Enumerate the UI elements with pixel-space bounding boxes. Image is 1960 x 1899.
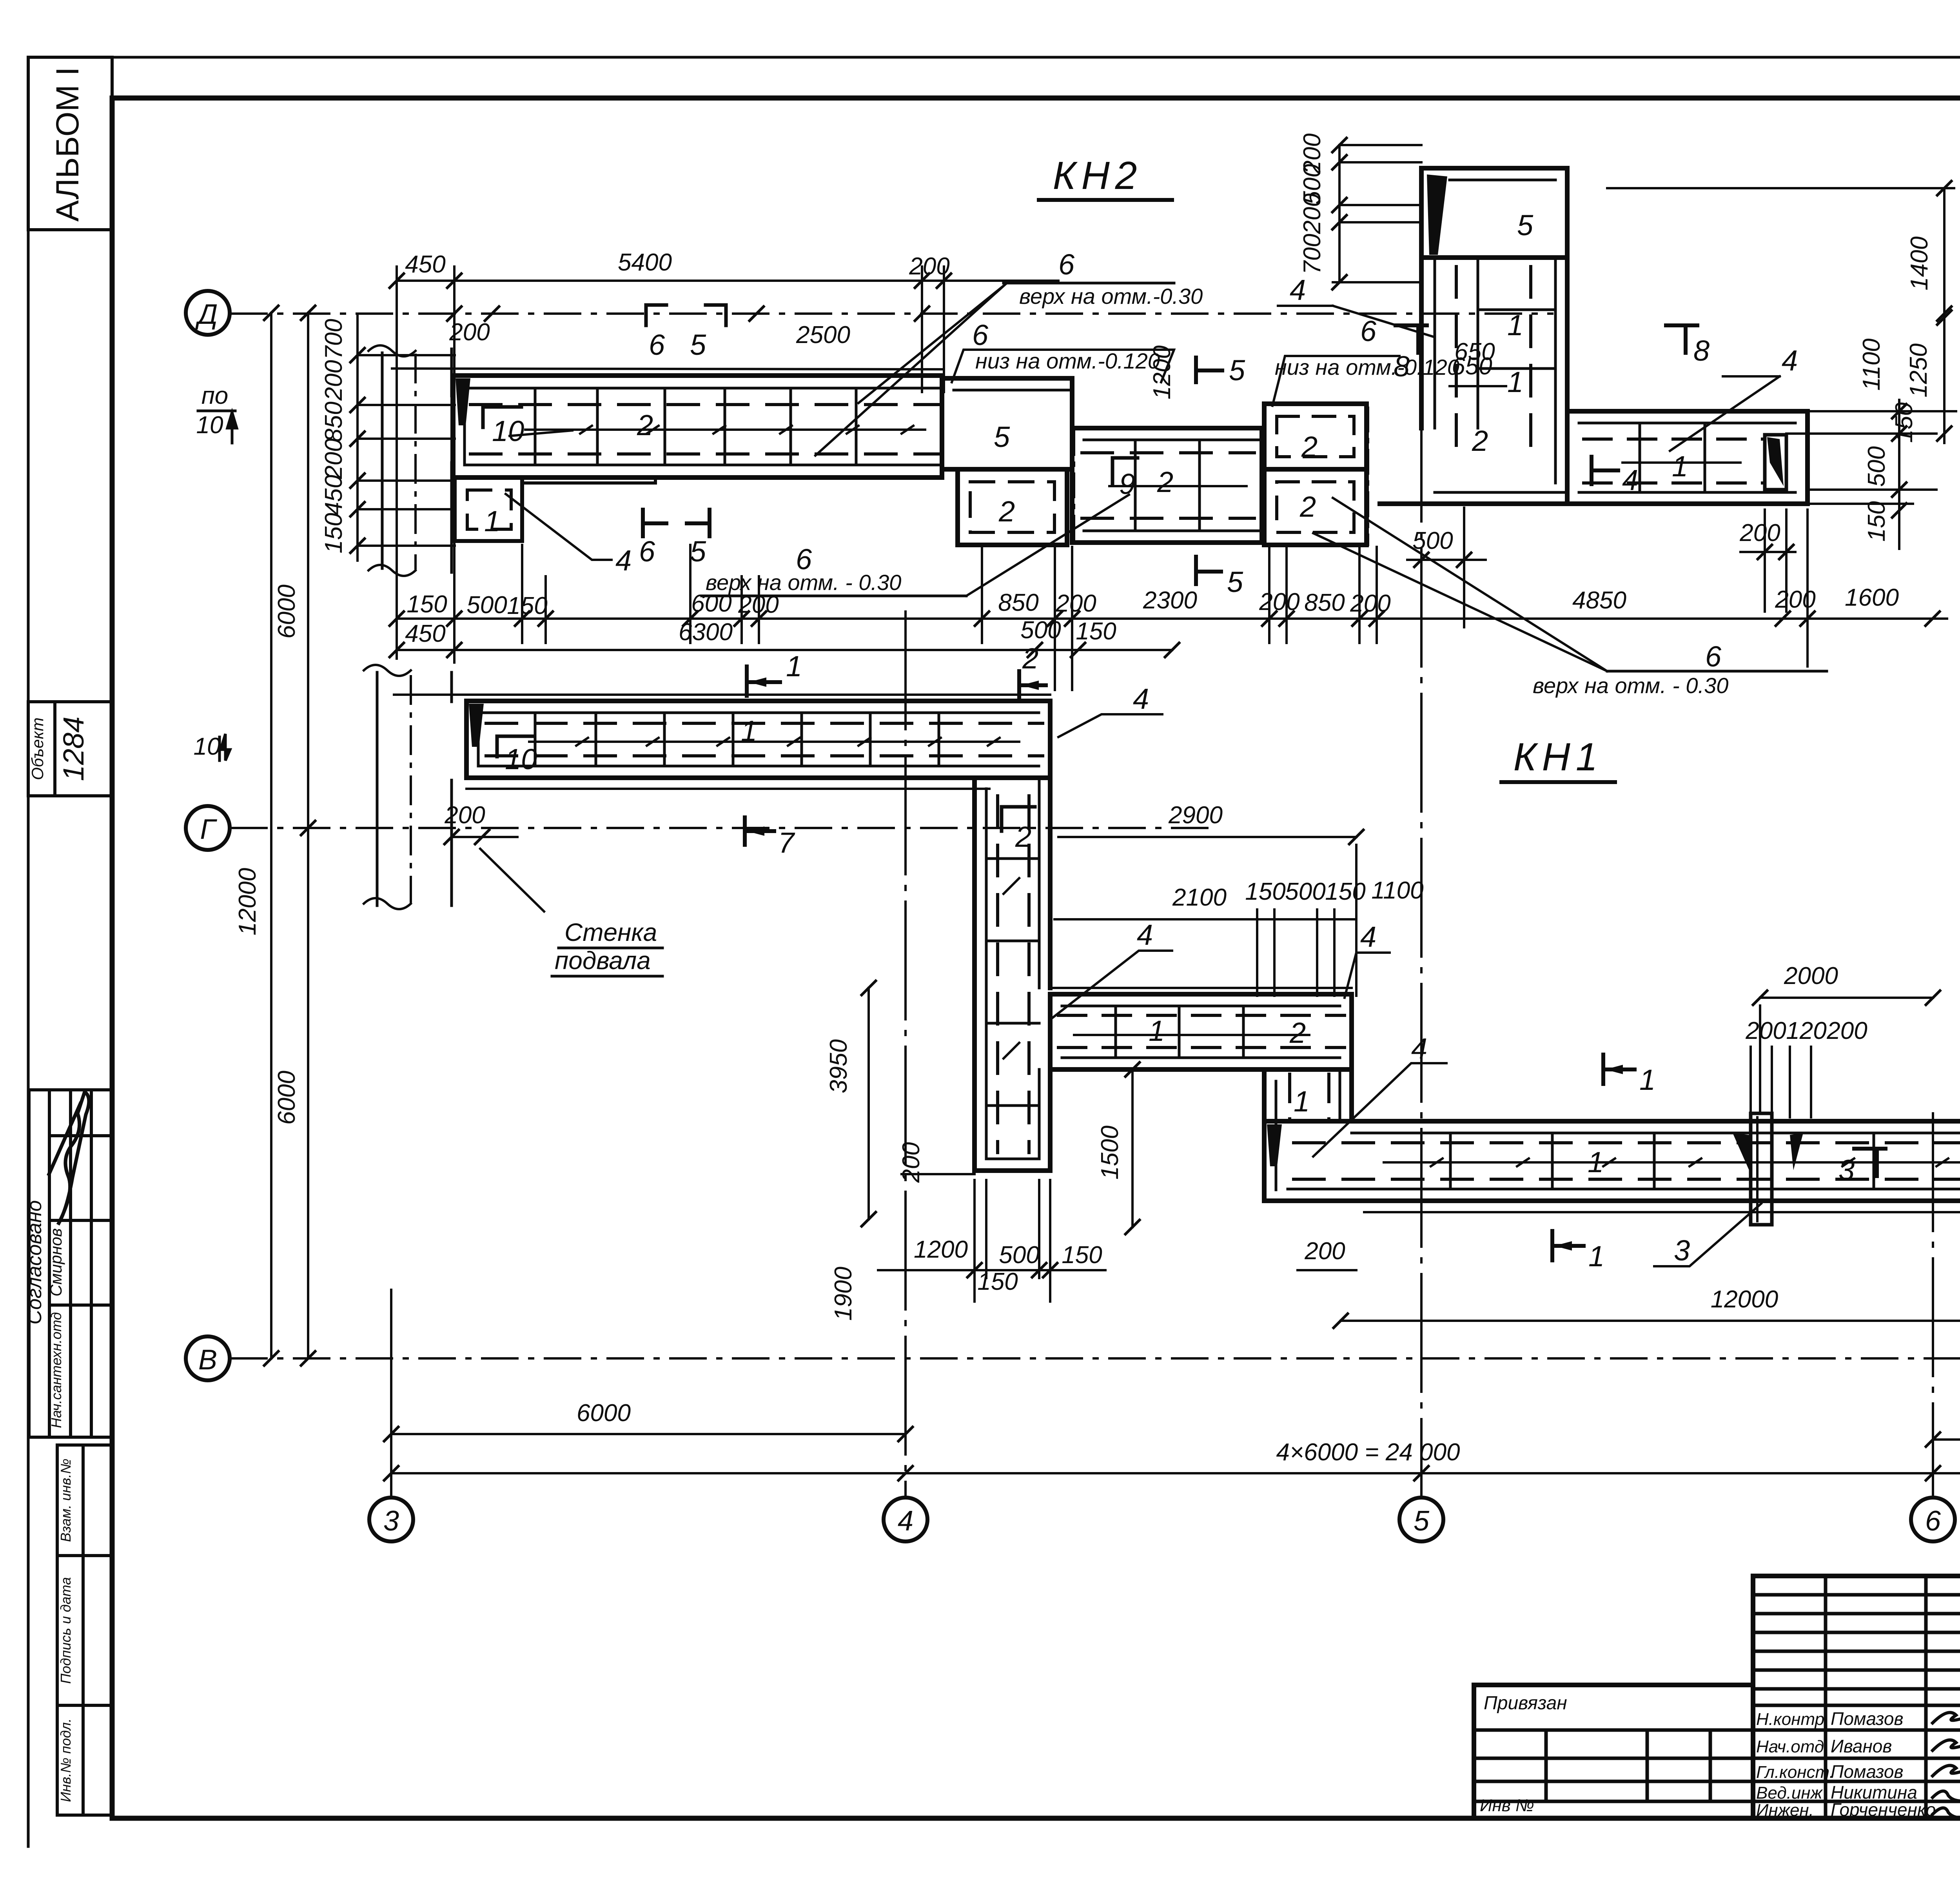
svg-text:12000: 12000 — [234, 868, 261, 935]
svg-text:6000: 6000 — [273, 585, 300, 639]
svg-text:2100: 2100 — [1172, 884, 1227, 911]
foundation shelf line below channel A — [522, 477, 655, 483]
svg-text:6: 6 — [639, 535, 655, 568]
svg-text:Объект: Объект — [28, 717, 47, 780]
svg-text:1200: 1200 — [1149, 345, 1176, 399]
dim row 3 line — [397, 617, 1947, 620]
svg-text:450: 450 — [405, 251, 445, 278]
Объект 1284 box — [28, 702, 112, 796]
svg-text:500: 500 — [1020, 617, 1061, 644]
svg-text:1900: 1900 — [830, 1267, 857, 1321]
grid rows upper — [1753, 1593, 1960, 1597]
svg-text:1: 1 — [1588, 1240, 1604, 1273]
svg-text:Согласовано: Согласовано — [23, 1200, 46, 1324]
svg-text:200: 200 — [444, 802, 485, 829]
svg-text:500: 500 — [1863, 446, 1890, 487]
thin footing line above — [392, 369, 942, 369]
leg top box wedge — [1427, 174, 1447, 255]
channel A segment dividers — [535, 388, 856, 465]
svg-text:4: 4 — [1411, 1032, 1427, 1065]
svg-text:1: 1 — [741, 715, 757, 747]
leader 4 at elbow — [1313, 1063, 1446, 1156]
leader 4 to КН1 top run right — [1058, 714, 1162, 737]
svg-text:1250: 1250 — [1905, 343, 1932, 398]
svg-text:200: 200 — [1826, 1017, 1867, 1044]
svg-text:200: 200 — [1304, 1238, 1345, 1265]
basement wall at КН2 left — [368, 345, 452, 576]
svg-text:4: 4 — [1137, 919, 1153, 951]
svg-text:850: 850 — [1304, 589, 1345, 616]
axis circle В — [186, 1336, 230, 1380]
flags 6 5 below channel A — [643, 510, 666, 536]
svg-text:1: 1 — [1588, 1146, 1604, 1178]
КН1 left vertical leg — [975, 778, 1050, 1171]
axis 5 line — [1420, 259, 1423, 1497]
svg-text:1100: 1100 — [1371, 877, 1423, 904]
КН2 box 2 (below 5) — [958, 469, 1067, 545]
names grid outer — [1753, 1576, 1960, 1818]
КН2 right 2/2 boxes — [1264, 404, 1367, 545]
svg-text:2: 2 — [1157, 466, 1173, 498]
КН1 bottom run — [1264, 1121, 1960, 1212]
svg-text:Помазов: Помазов — [1831, 1708, 1903, 1729]
flag 10 in channel A — [483, 407, 521, 427]
svg-text:6: 6 — [1058, 248, 1075, 281]
svg-text:6: 6 — [1360, 315, 1377, 347]
svg-text:200: 200 — [449, 319, 490, 346]
axis 3 line — [390, 1290, 392, 1497]
svg-text:200: 200 — [1350, 590, 1390, 617]
svg-text:150: 150 — [977, 1268, 1018, 1295]
svg-text:8: 8 — [1693, 334, 1710, 367]
leader 4 at jog right — [1345, 953, 1390, 998]
svg-text:6: 6 — [1705, 640, 1722, 673]
svg-text:Подпись и дата: Подпись и дата — [58, 1577, 74, 1684]
svg-text:1: 1 — [484, 505, 500, 537]
svg-text:150: 150 — [1863, 501, 1890, 541]
svg-text:1400: 1400 — [1906, 236, 1933, 290]
svg-text:2300: 2300 — [1143, 587, 1197, 614]
svg-text:500: 500 — [466, 592, 507, 619]
svg-text:Смирнов: Смирнов — [47, 1228, 65, 1296]
dim row 2 (on axis Д) ticks — [447, 307, 929, 321]
svg-text:10: 10 — [194, 733, 221, 760]
svg-text:10: 10 — [505, 743, 537, 775]
svg-text:200: 200 — [1745, 1017, 1786, 1044]
leader 3 to joint 1 — [1654, 1204, 1761, 1266]
svg-text:6000: 6000 — [273, 1071, 300, 1125]
svg-text:5: 5 — [1229, 354, 1245, 387]
svg-text:Взам. инв.№: Взам. инв.№ — [58, 1459, 74, 1542]
КН2 vertical leg walls — [1421, 258, 1567, 483]
svg-text:5: 5 — [690, 329, 706, 361]
svg-text:1: 1 — [1672, 450, 1688, 483]
svg-text:1284: 1284 — [57, 717, 90, 781]
Согласовано block — [29, 1090, 112, 1437]
axis circle Д — [186, 291, 230, 335]
svg-text:4×6000 = 24 000: 4×6000 = 24 000 — [1276, 1439, 1460, 1466]
svg-text:4: 4 — [1290, 274, 1306, 306]
svg-text:5400: 5400 — [618, 249, 672, 276]
extension lines row 1 — [396, 267, 398, 659]
svg-text:АЛЬБОМ I: АЛЬБОМ I — [50, 67, 85, 222]
svg-text:4: 4 — [898, 1505, 913, 1537]
bottom run dividers — [1450, 1133, 1960, 1189]
svg-text:850: 850 — [998, 589, 1038, 616]
svg-text:150: 150 — [1325, 878, 1365, 905]
svg-text:150: 150 — [320, 513, 347, 553]
axis circle 6 — [1911, 1498, 1955, 1541]
svg-text:Д: Д — [195, 299, 218, 330]
svg-text:5: 5 — [690, 535, 706, 568]
dash-dot joint lines at 2/2 boxes — [1367, 408, 1369, 545]
bottom run left end wedge — [1267, 1124, 1282, 1166]
axis circle 4 — [884, 1498, 927, 1541]
svg-text:низ на отм.-0.120: низ на отм.-0.120 — [975, 349, 1160, 373]
svg-text:650: 650 — [1454, 338, 1495, 365]
svg-text:200: 200 — [1259, 588, 1299, 615]
svg-text:КН2: КН2 — [1053, 154, 1143, 198]
svg-text:120: 120 — [1786, 1017, 1826, 1044]
svg-text:700: 700 — [1299, 234, 1326, 274]
section 7 flag on Г axis — [745, 817, 774, 845]
svg-text:4850: 4850 — [1572, 587, 1626, 614]
axis circle 5 — [1399, 1498, 1443, 1541]
flag 3 left — [1854, 1149, 1886, 1176]
svg-text:7: 7 — [778, 826, 795, 859]
КН1 top run left wedge — [469, 704, 484, 747]
svg-text:2900: 2900 — [1168, 802, 1223, 829]
svg-text:Привязан: Привязан — [1484, 1693, 1567, 1714]
svg-text:2: 2 — [1301, 430, 1318, 463]
svg-text:по: по — [201, 382, 229, 409]
svg-text:2: 2 — [1022, 642, 1038, 675]
dim row 4 line 6300 — [397, 649, 1172, 651]
svg-text:150: 150 — [407, 591, 447, 618]
svg-text:6: 6 — [1925, 1505, 1941, 1537]
svg-text:3: 3 — [1674, 1234, 1690, 1267]
svg-text:Н.контр.: Н.контр. — [1756, 1710, 1829, 1729]
svg-text:500: 500 — [1285, 878, 1325, 905]
axis Д line — [231, 312, 1552, 315]
svg-text:1: 1 — [786, 650, 802, 683]
svg-text:500: 500 — [999, 1242, 1039, 1269]
svg-text:200: 200 — [1055, 590, 1096, 617]
svg-text:1: 1 — [1639, 1064, 1655, 1096]
svg-text:верх на отм. - 0.30: верх на отм. - 0.30 — [706, 570, 901, 595]
svg-text:200: 200 — [909, 253, 949, 280]
svg-text:Стенка: Стенка — [564, 918, 657, 946]
leader 4 to leg top wedge — [1333, 306, 1435, 337]
svg-text:2: 2 — [1015, 821, 1031, 853]
svg-text:10: 10 — [196, 412, 223, 439]
svg-text:5: 5 — [1414, 1505, 1430, 1537]
svg-text:Горченченко: Горченченко — [1831, 1799, 1936, 1820]
svg-text:4: 4 — [615, 544, 632, 577]
extension lines right of run — [1786, 411, 1956, 504]
svg-text:4: 4 — [1782, 344, 1798, 377]
svg-text:2: 2 — [637, 409, 653, 441]
flag 9 in middle channel — [1112, 458, 1138, 484]
channel A dashed lines — [470, 405, 939, 454]
svg-text:450: 450 — [320, 475, 347, 515]
КН2 right horizontal run — [1380, 411, 1808, 504]
signature scribble — [49, 1092, 89, 1223]
svg-text:200: 200 — [1739, 519, 1780, 546]
svg-text:2: 2 — [1472, 425, 1488, 457]
КН2 vertical leg top box 5 — [1421, 168, 1567, 258]
КН1 top run dashed lines — [486, 723, 1043, 756]
svg-text:3: 3 — [383, 1505, 399, 1537]
svg-text:низ на отм.-0.120: низ на отм.-0.120 — [1275, 355, 1459, 379]
КН1 jog channel — [1050, 988, 1352, 1069]
svg-text:Инв №: Инв № — [1480, 1796, 1534, 1815]
svg-text:4: 4 — [1360, 920, 1376, 953]
КН2 box 5 (mid) — [942, 378, 1072, 469]
svg-text:200: 200 — [320, 438, 347, 479]
svg-text:150: 150 — [1245, 878, 1285, 905]
axis В line — [231, 1357, 1960, 1360]
leader Стенка подвала — [480, 849, 544, 911]
row 3 ticks — [683, 612, 1940, 626]
svg-text:200: 200 — [898, 1142, 925, 1183]
svg-text:150: 150 — [1062, 1242, 1102, 1269]
basement wall at КН1 left — [364, 665, 452, 909]
svg-text:850: 850 — [320, 401, 347, 442]
svg-text:КН1: КН1 — [1514, 735, 1603, 779]
svg-text:5: 5 — [1227, 566, 1243, 598]
Подпись и дата box — [57, 1556, 112, 1705]
КН2 channel run A outer walls — [392, 369, 942, 477]
row 3 extension lines — [690, 510, 1808, 690]
section 1 below bottom run — [1552, 1231, 1584, 1260]
КН1 elbow down to bottom run — [1264, 1069, 1352, 1201]
svg-text:200: 200 — [1775, 586, 1815, 613]
flag 6 on row2 — [646, 305, 666, 325]
expansion joint 1 — [1751, 1113, 1772, 1225]
leader 4 to box 1 — [506, 494, 612, 560]
svg-text:4: 4 — [1622, 464, 1638, 496]
section flag 8 left — [1396, 325, 1427, 353]
КН1 top run dividers — [535, 713, 939, 766]
dim row 1 line — [397, 280, 1058, 282]
svg-text:2000: 2000 — [1784, 962, 1838, 989]
svg-text:3950: 3950 — [825, 1039, 852, 1093]
Инв № подл box — [57, 1705, 112, 1815]
svg-text:450: 450 — [405, 620, 445, 647]
svg-text:200: 200 — [1299, 193, 1326, 234]
axis Г line — [231, 827, 1207, 829]
svg-text:Г: Г — [200, 814, 217, 845]
bottom run dashed lines — [1294, 1143, 1960, 1179]
svg-text:10: 10 — [492, 415, 524, 447]
svg-text:700: 700 — [320, 319, 347, 359]
КН2 middle channel — [1072, 428, 1262, 543]
flag 10 in КН1 top run — [497, 736, 533, 757]
svg-text:1500: 1500 — [1096, 1126, 1123, 1180]
flag 2 in КН1 leg — [1002, 807, 1035, 831]
svg-text:500: 500 — [1412, 527, 1453, 554]
svg-text:2500: 2500 — [796, 321, 850, 349]
svg-text:6: 6 — [649, 329, 665, 361]
svg-text:Вед.инж: Вед.инж — [1756, 1783, 1823, 1803]
svg-text:Помазов: Помазов — [1831, 1761, 1903, 1782]
section 2 mark below row 4 — [1019, 671, 1046, 699]
svg-text:1: 1 — [1149, 1015, 1165, 1047]
svg-text:5: 5 — [994, 421, 1010, 453]
svg-text:2: 2 — [1299, 490, 1316, 523]
channel A mid line with ties — [525, 426, 925, 434]
flag 5 on row2 — [706, 305, 726, 325]
svg-text:Инжен.: Инжен. — [1756, 1801, 1814, 1820]
svg-text:4: 4 — [1133, 683, 1149, 715]
svg-text:3: 3 — [1838, 1154, 1855, 1186]
right run end wedge — [1767, 437, 1784, 486]
svg-text:12000: 12000 — [1711, 1286, 1778, 1313]
svg-text:5: 5 — [1517, 209, 1534, 241]
channel A left end wedge — [456, 378, 470, 425]
signatures — [1933, 1712, 1960, 1818]
svg-text:1: 1 — [1507, 366, 1523, 398]
flag 4 in right run — [1592, 457, 1618, 484]
svg-text:Инв.№ подл.: Инв.№ подл. — [58, 1718, 74, 1802]
svg-text:1600: 1600 — [1845, 584, 1899, 611]
svg-text:200: 200 — [738, 591, 779, 618]
svg-text:1100: 1100 — [1858, 338, 1885, 390]
svg-text:150: 150 — [1076, 618, 1116, 645]
Привязан box — [1474, 1685, 1753, 1815]
svg-text:1: 1 — [1294, 1085, 1310, 1118]
svg-text:верх на отм.-0.30: верх на отм.-0.30 — [1019, 284, 1203, 309]
КН1 top run mid line with ties — [529, 738, 1019, 746]
ticks row 1 — [390, 274, 951, 288]
flag 5 below 2300 — [1196, 557, 1221, 584]
Взам инв box — [57, 1445, 112, 1556]
svg-text:подвала: подвала — [555, 946, 651, 975]
section 1 mark below row 4 — [747, 666, 780, 696]
axis circle Г — [186, 806, 230, 850]
svg-text:600: 600 — [691, 590, 731, 617]
svg-text:200: 200 — [320, 360, 347, 401]
svg-text:6000: 6000 — [577, 1400, 631, 1427]
svg-text:1: 1 — [1507, 309, 1523, 341]
КН1 top channel run — [394, 695, 1050, 789]
axis 4 line — [904, 612, 907, 1497]
axis 6 line — [1932, 1113, 1934, 1497]
flag 5 above middle channel — [1196, 358, 1222, 382]
bottom run mid line with ties — [1384, 1158, 1960, 1166]
svg-text:2: 2 — [998, 495, 1015, 528]
box 1 below channel A — [455, 477, 522, 541]
svg-text:6: 6 — [972, 319, 989, 351]
axis circle 3 — [369, 1498, 413, 1541]
name rows — [1753, 1728, 1960, 1732]
АЛЬБОМ I box — [28, 57, 112, 230]
svg-text:Нач.сантехн.отд: Нач.сантехн.отд — [48, 1312, 64, 1428]
svg-text:2: 2 — [1289, 1017, 1306, 1049]
grid columns — [1824, 1576, 1828, 1818]
svg-text:Гл.конст.: Гл.конст. — [1756, 1763, 1834, 1782]
leader 4 at jog left — [1051, 951, 1172, 1019]
svg-text:Нач.отд: Нач.отд — [1756, 1737, 1824, 1756]
svg-text:1200: 1200 — [914, 1236, 968, 1263]
leader 4 to right run left joint — [1670, 376, 1780, 451]
svg-text:6300: 6300 — [679, 619, 733, 646]
svg-text:Иванов: Иванов — [1831, 1736, 1892, 1756]
section 1 above bottom run (mid) — [1603, 1055, 1635, 1084]
svg-text:В: В — [198, 1344, 217, 1376]
svg-text:верх на отм. - 0.30: верх на отм. - 0.30 — [1533, 673, 1728, 698]
section flag 8 right — [1666, 325, 1697, 353]
